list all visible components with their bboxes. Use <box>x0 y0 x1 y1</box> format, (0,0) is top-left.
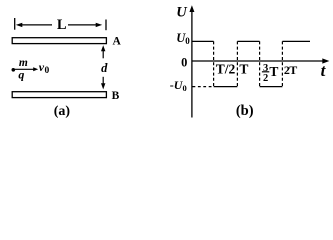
svg-text:d: d <box>101 61 108 75</box>
dashed vertical at 3T/2 <box>259 41 261 86</box>
velocity arrow v0 <box>15 67 38 71</box>
dimension d lower arrow <box>101 77 105 90</box>
svg-text:B: B <box>112 90 120 102</box>
waveform bottom segment (3T/2 to 2T) <box>260 86 283 88</box>
tick label 3/2 (fraction) with T <box>262 63 279 84</box>
svg-text:q: q <box>18 68 24 82</box>
waveform pulse 1 top (0 to T/2) <box>192 40 214 42</box>
t axis <box>192 58 330 63</box>
U axis <box>189 5 194 117</box>
dimension L right tick <box>105 20 107 31</box>
svg-text:L: L <box>57 17 67 33</box>
svg-text:A: A <box>112 36 121 48</box>
waveform bottom segment (T/2 to T) <box>214 86 238 88</box>
svg-text:2: 2 <box>263 73 268 84</box>
svg-text:0: 0 <box>181 55 187 69</box>
dimension d upper arrow <box>101 45 105 58</box>
particle dot <box>12 68 16 72</box>
plate B <box>12 92 106 98</box>
svg-text:(a): (a) <box>54 104 71 119</box>
svg-text:T: T <box>239 62 248 77</box>
dimension L left arrow <box>16 23 52 27</box>
svg-text:2T: 2T <box>284 63 297 77</box>
dashed vertical at T <box>236 41 238 86</box>
dashed vertical at T/2 <box>213 41 215 86</box>
svg-text:U: U <box>176 4 188 20</box>
dimension L left tick <box>14 18 16 30</box>
dimension L right arrow <box>68 23 102 27</box>
svg-text:-U0: -U0 <box>170 78 187 93</box>
svg-text:v0: v0 <box>39 60 50 76</box>
svg-text:T/2: T/2 <box>216 62 236 77</box>
svg-text:T: T <box>269 64 278 79</box>
svg-text:(b): (b) <box>236 103 254 119</box>
plate A <box>12 38 106 44</box>
dashed vertical at 2T <box>281 41 283 86</box>
waveform pulse 3 top (after 2T) <box>282 40 310 42</box>
waveform pulse 2 top (T to 3T/2) <box>237 40 259 42</box>
dashed -U0 level line <box>193 86 214 88</box>
svg-text:t: t <box>321 61 327 80</box>
svg-text:U0: U0 <box>176 31 190 46</box>
